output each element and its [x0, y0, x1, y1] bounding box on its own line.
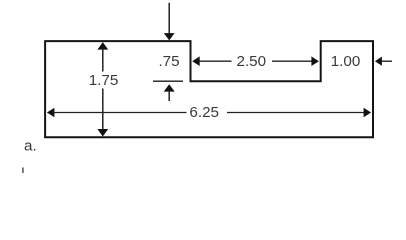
dim .75 extension line [153, 80, 183, 82]
dim 1.75 top arrow [97, 42, 108, 71]
svg-text:1.00: 1.00 [331, 53, 361, 70]
svg-text:6.25: 6.25 [189, 104, 219, 121]
svg-text:.75: .75 [158, 53, 179, 70]
part outline [45, 41, 373, 137]
svg-text:2.50: 2.50 [237, 53, 267, 70]
svg-text:1.75: 1.75 [89, 72, 119, 89]
dim 6.25 left arrow [47, 108, 187, 118]
dim 6.25 right arrow [227, 108, 371, 118]
dim 1.00 outside arrow [375, 57, 392, 66]
partial glyph bottom-left [22, 168, 24, 174]
dim 1.75 bottom arrow [97, 89, 108, 137]
dim .75 bottom arrow [164, 84, 175, 101]
svg-text:a.: a. [24, 138, 37, 155]
dim .75 top arrow [164, 3, 175, 41]
dim 2.50 left arrow [192, 56, 231, 66]
dim 2.50 right arrow [272, 56, 319, 66]
